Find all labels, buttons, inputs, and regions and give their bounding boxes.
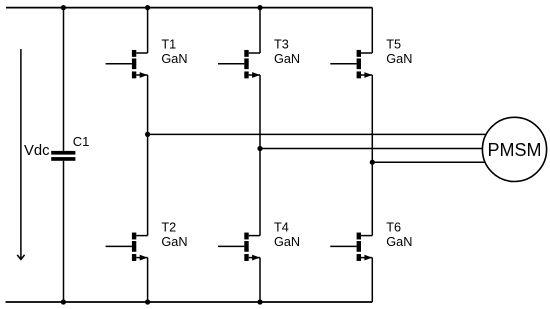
svg-text:GaN: GaN [161,52,187,66]
svg-text:GaN: GaN [274,52,300,66]
svg-text:Vdc: Vdc [24,143,50,159]
svg-text:GaN: GaN [386,52,412,66]
svg-text:PMSM: PMSM [488,140,542,160]
svg-text:GaN: GaN [274,235,300,249]
svg-text:C1: C1 [73,134,90,149]
svg-text:GaN: GaN [161,235,187,249]
svg-text:T3: T3 [274,38,289,52]
svg-text:T1: T1 [161,38,176,52]
svg-text:T2: T2 [161,220,176,234]
svg-text:T6: T6 [386,220,401,234]
svg-text:T5: T5 [386,38,401,52]
svg-text:T4: T4 [274,220,289,234]
svg-text:GaN: GaN [386,235,412,249]
